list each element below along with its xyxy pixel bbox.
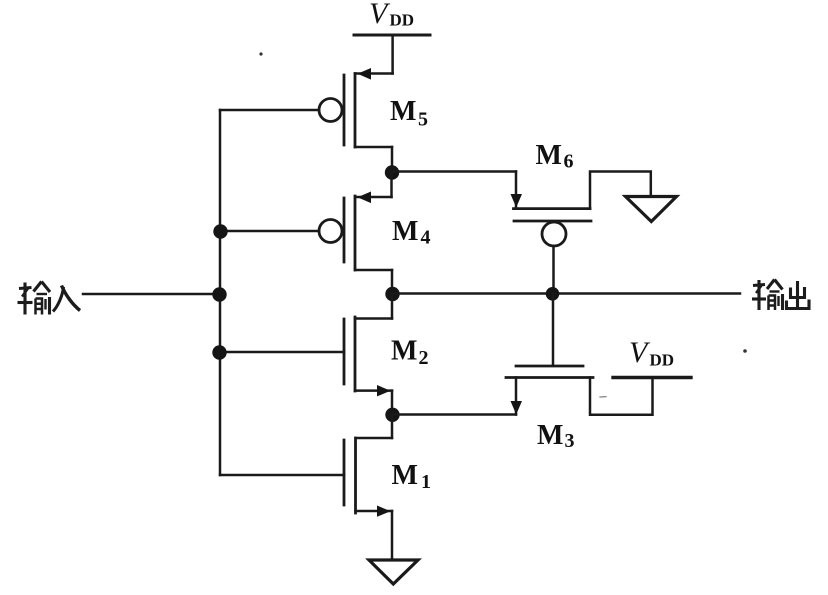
node A (drain M5 / source M4 / to M6)	[385, 165, 399, 179]
power VDD bar (right)	[613, 376, 691, 379]
wire bus to M2 gate	[220, 351, 344, 354]
label 输出 (output)	[752, 280, 809, 311]
junction dot (M2 branch)	[212, 345, 226, 359]
transistor M1 (NMOS)	[344, 415, 392, 560]
node C (output line / M6 gate / M3 gate)	[546, 287, 560, 301]
input wire	[83, 293, 220, 296]
transistor M6 (PMOS, horizontal)	[511, 172, 651, 247]
svg-text:6: 6	[564, 151, 574, 173]
transistor M5 (PMOS)	[319, 68, 393, 172]
svg-text:3: 3	[565, 430, 575, 452]
ground symbol (M6 drain)	[626, 197, 677, 222]
svg-text:4: 4	[421, 227, 431, 249]
wire VDD bar to M5 source	[391, 35, 394, 74]
transistor M4 (PMOS)	[319, 172, 392, 294]
output wire	[392, 292, 740, 295]
svg-text:DD: DD	[650, 351, 675, 370]
label M4	[392, 216, 431, 249]
svg-text:V: V	[369, 0, 391, 30]
svg-text:2: 2	[419, 347, 429, 369]
label M2	[391, 336, 429, 370]
label M1	[392, 460, 432, 493]
label M3	[537, 420, 575, 452]
label M6	[536, 140, 574, 173]
node D (source M2 / drain M1 / to M3)	[385, 408, 399, 422]
stray scan dot (right of VDD)	[743, 349, 747, 353]
svg-text:M: M	[392, 460, 418, 491]
transistor M3 (NMOS, horizontal)	[506, 294, 653, 415]
svg-text:DD: DD	[390, 11, 415, 30]
wire node D to M3 source	[392, 413, 516, 416]
ground symbol (M1 source)	[369, 560, 418, 584]
junction dot (input)	[212, 287, 226, 301]
power VDD bar (top)	[354, 34, 430, 37]
junction dot (M4 branch)	[213, 224, 227, 238]
svg-text:M: M	[391, 336, 417, 367]
svg-text:M: M	[536, 140, 562, 171]
svg-text:5: 5	[418, 109, 428, 131]
label M5	[390, 96, 428, 131]
wire bus to M4 gate bubble	[220, 230, 319, 233]
label VDD (right)	[629, 336, 674, 370]
svg-text:M: M	[392, 216, 418, 247]
wire bus to M1 gate	[220, 474, 344, 477]
wire node A to M6 source	[392, 170, 516, 173]
svg-text:M: M	[390, 96, 416, 127]
label 输入 (input)	[18, 282, 81, 315]
wire bus to M5 gate bubble	[220, 109, 319, 112]
input bus (vertical)	[219, 110, 222, 475]
svg-text:V: V	[629, 336, 651, 369]
transistor M2 (NMOS)	[344, 294, 392, 415]
svg-text:M: M	[537, 420, 563, 451]
stray scan dot (upper left)	[259, 52, 262, 55]
node B (output node left, drain M4 / drain M2)	[385, 287, 399, 301]
svg-text:1: 1	[421, 471, 431, 493]
label VDD (top)	[369, 0, 414, 30]
stray scan dash (near M3)	[600, 396, 606, 398]
wire M6 gate to output node	[552, 246, 555, 294]
